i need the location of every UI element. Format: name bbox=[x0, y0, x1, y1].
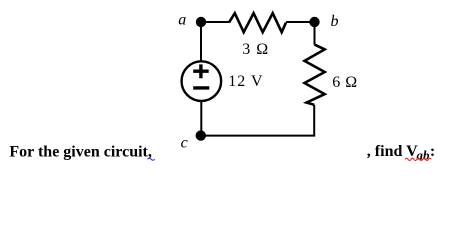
node b bbox=[309, 17, 319, 27]
svg-text:a: a bbox=[178, 12, 186, 29]
node a bbox=[196, 17, 206, 27]
red spelling squiggle under Vab bbox=[405, 158, 431, 160]
minus sign of V1 bbox=[193, 86, 209, 89]
wire a down to source V1 bbox=[200, 22, 202, 61]
plus sign of V1 bbox=[193, 64, 209, 78]
wire resistor R1 to b bbox=[286, 21, 315, 23]
wire a to resistor R1 bbox=[201, 21, 229, 23]
svg-text::: : bbox=[430, 143, 435, 160]
bottom wire c to bottom-right corner bbox=[201, 135, 315, 137]
svg-text:b: b bbox=[331, 13, 339, 30]
voltage source V1 circle bbox=[182, 61, 222, 101]
svg-text:For the given circuit,: For the given circuit, bbox=[9, 143, 152, 160]
resistor R2 6-ohm zigzag bbox=[305, 45, 325, 105]
svg-text:12 V: 12 V bbox=[228, 73, 263, 90]
wire resistor R2 down to bottom bbox=[313, 105, 315, 136]
blue grammar squiggle under comma bbox=[148, 158, 155, 160]
wire b down to resistor R2 bbox=[314, 22, 316, 45]
wire source V1 down to c bbox=[200, 101, 202, 136]
svg-text:3 Ω: 3 Ω bbox=[242, 41, 269, 58]
node c bbox=[196, 130, 206, 140]
resistor R1 3-ohm zigzag bbox=[229, 13, 286, 32]
svg-text:6 Ω: 6 Ω bbox=[332, 74, 357, 91]
svg-text:, find V: , find V bbox=[367, 143, 418, 160]
svg-text:c: c bbox=[181, 134, 188, 151]
